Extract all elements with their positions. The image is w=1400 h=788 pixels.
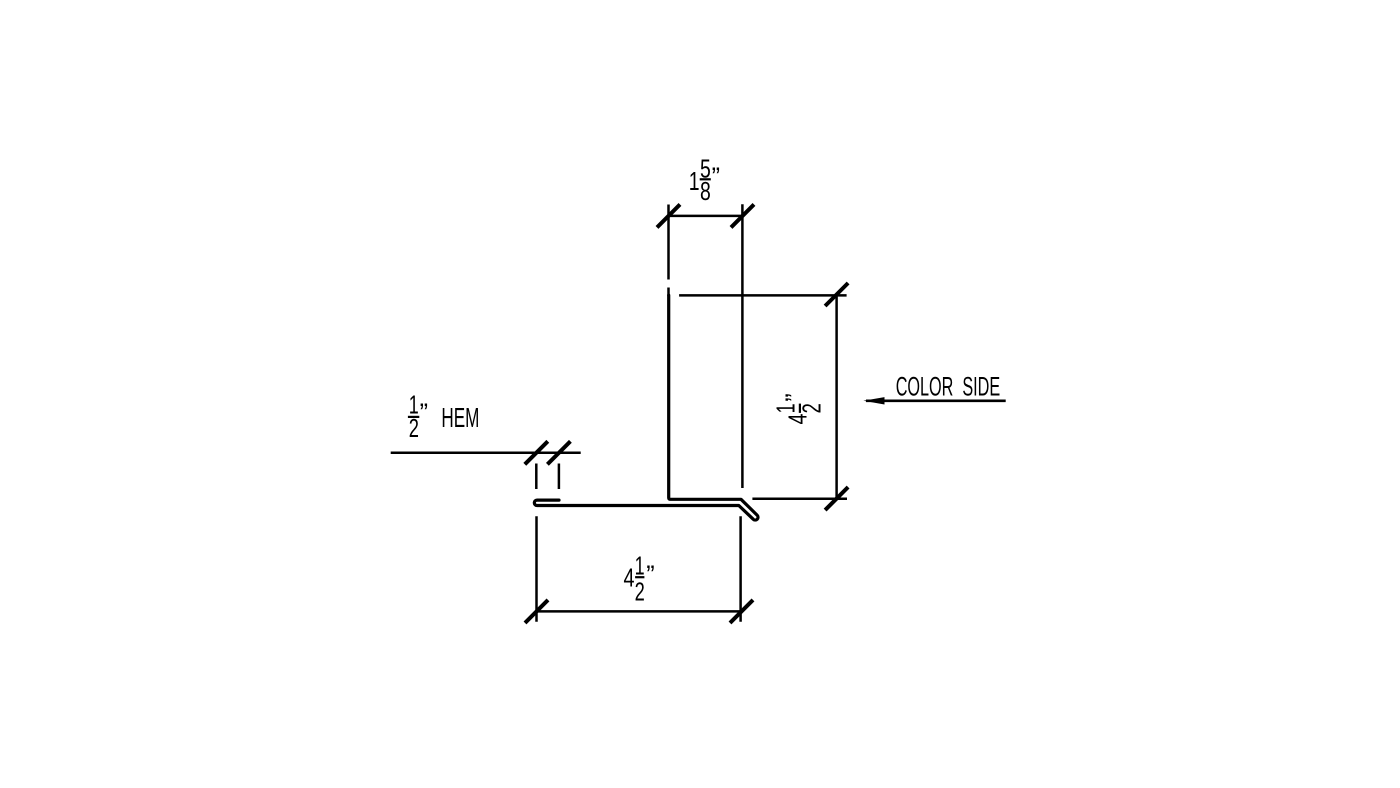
- svg-text:HEM: HEM: [441, 402, 479, 433]
- svg-text:1: 1: [773, 403, 801, 413]
- 1/2" HEM callout: [391, 453, 581, 489]
- dim line: [669, 215, 743, 218]
- svg-text:4: 4: [624, 564, 635, 592]
- bottom dimension 4 1/2": [537, 516, 742, 621]
- tick top: [825, 283, 848, 306]
- top extension line: [679, 294, 847, 297]
- arrow leader: [866, 399, 1006, 402]
- svg-text:2: 2: [409, 415, 419, 443]
- right dimension 4 1/2" (vertical): [679, 295, 847, 499]
- extension line 1: [535, 464, 538, 490]
- svg-text:2: 2: [799, 403, 827, 413]
- tick left: [525, 600, 548, 623]
- svg-text:”: ”: [782, 393, 810, 401]
- tick left: [657, 204, 680, 227]
- tick right: [730, 600, 753, 623]
- left extension line (dashed): [667, 205, 670, 280]
- left extension line: [535, 516, 538, 621]
- text 4 1/2": [624, 552, 655, 606]
- extension line 2: [558, 464, 561, 490]
- flashing profile (vertical leg, bottom leg, right open-hem kick, left hem): [534, 295, 758, 520]
- dim line: [537, 610, 742, 613]
- top dimension 1 5/8": [669, 204, 743, 488]
- tick 2: [547, 441, 570, 464]
- svg-text:1: 1: [689, 168, 700, 196]
- tick right: [731, 204, 754, 227]
- dim line: [835, 295, 838, 499]
- rotated text 4 1/2": [773, 393, 827, 424]
- text 1/2" HEM: [409, 392, 480, 444]
- svg-text:”: ”: [712, 163, 720, 191]
- text 1 5/8": [689, 155, 720, 206]
- svg-text:8: 8: [700, 178, 711, 206]
- svg-text:COLOR SIDE: COLOR SIDE: [896, 372, 1001, 402]
- tick bottom: [825, 487, 848, 510]
- arrow head: [863, 397, 884, 404]
- svg-text:2: 2: [635, 579, 645, 607]
- bottom extension line: [752, 497, 847, 500]
- tick 1: [525, 441, 548, 464]
- svg-text:1: 1: [635, 552, 645, 580]
- leader line: [391, 452, 581, 455]
- svg-text:4: 4: [785, 414, 813, 425]
- right extension line: [741, 204, 744, 488]
- svg-text:”: ”: [420, 400, 428, 428]
- right extension line: [739, 516, 742, 621]
- svg-text:”: ”: [646, 562, 654, 590]
